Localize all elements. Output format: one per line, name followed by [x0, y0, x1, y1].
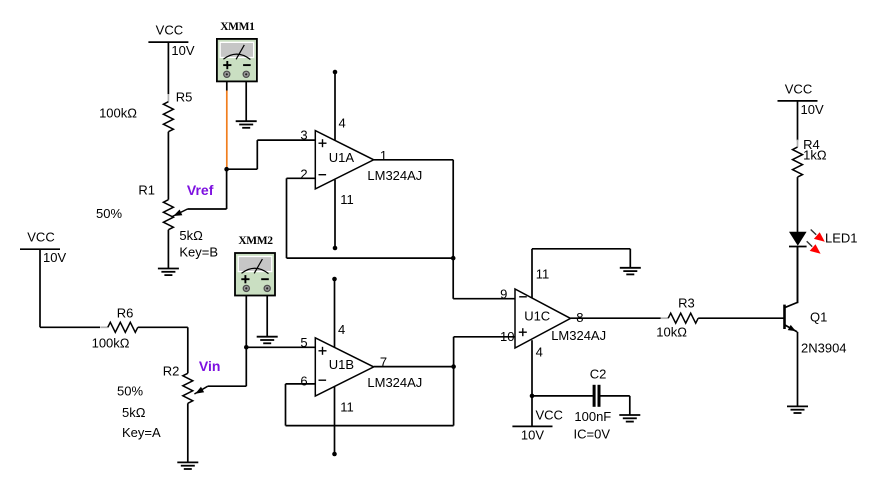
svg-text:R1: R1 [138, 182, 155, 197]
svg-text:5: 5 [300, 335, 307, 350]
svg-text:1: 1 [380, 148, 387, 163]
svg-text:11: 11 [340, 192, 354, 207]
svg-text:6: 6 [300, 373, 307, 388]
svg-text:100kΩ: 100kΩ [92, 336, 130, 351]
svg-text:100nF: 100nF [574, 409, 611, 424]
svg-text:XMM2: XMM2 [238, 235, 273, 247]
svg-text:3: 3 [300, 128, 307, 143]
svg-text:7: 7 [380, 354, 387, 369]
svg-text:R2: R2 [163, 364, 180, 379]
svg-text:10V: 10V [521, 428, 544, 443]
svg-text:Key=B: Key=B [179, 244, 218, 259]
svg-text:50%: 50% [96, 206, 122, 221]
svg-text:10: 10 [500, 329, 514, 344]
svg-text:Vref: Vref [187, 182, 214, 198]
svg-text:XMM1: XMM1 [220, 21, 255, 33]
svg-text:2N3904: 2N3904 [801, 340, 847, 355]
svg-text:C2: C2 [590, 366, 607, 381]
svg-text:Q1: Q1 [810, 309, 827, 324]
svg-text:2: 2 [300, 167, 307, 182]
svg-text:Vin: Vin [199, 358, 221, 374]
svg-text:LM324AJ: LM324AJ [367, 375, 422, 390]
svg-text:10V: 10V [171, 43, 194, 58]
svg-text:U1C: U1C [524, 309, 550, 324]
svg-text:LED1: LED1 [825, 230, 858, 245]
svg-text:U1B: U1B [329, 357, 354, 372]
svg-text:VCC: VCC [156, 23, 183, 38]
svg-text:50%: 50% [117, 384, 143, 399]
svg-text:R3: R3 [678, 295, 695, 310]
svg-text:5kΩ: 5kΩ [122, 405, 146, 420]
svg-text:R5: R5 [176, 90, 193, 105]
svg-text:11: 11 [536, 266, 550, 281]
svg-text:10V: 10V [43, 250, 66, 265]
svg-text:IC=0V: IC=0V [574, 426, 611, 441]
svg-text:10kΩ: 10kΩ [656, 324, 687, 339]
svg-text:U1A: U1A [329, 150, 355, 165]
svg-text:VCC: VCC [536, 408, 563, 423]
svg-text:4: 4 [339, 115, 346, 130]
svg-text:LM324AJ: LM324AJ [367, 168, 422, 183]
svg-text:5kΩ: 5kΩ [179, 228, 203, 243]
svg-text:VCC: VCC [27, 230, 54, 245]
svg-text:9: 9 [500, 286, 507, 301]
svg-text:10V: 10V [801, 102, 824, 117]
svg-text:4: 4 [536, 344, 543, 359]
svg-text:VCC: VCC [785, 81, 812, 96]
svg-text:11: 11 [340, 399, 354, 414]
svg-text:Key=A: Key=A [122, 425, 161, 440]
svg-text:8: 8 [576, 310, 583, 325]
svg-text:1kΩ: 1kΩ [803, 148, 827, 163]
svg-text:100kΩ: 100kΩ [99, 106, 137, 121]
svg-text:LM324AJ: LM324AJ [551, 328, 606, 343]
svg-text:R6: R6 [117, 306, 134, 321]
svg-text:4: 4 [338, 322, 345, 337]
